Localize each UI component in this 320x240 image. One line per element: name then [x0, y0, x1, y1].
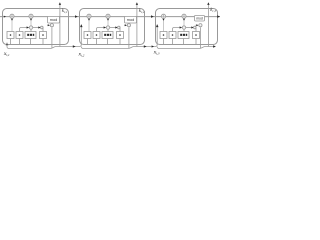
wire: stub below box 1.3 [30, 39, 32, 45]
xor node C3 above reg3 [182, 26, 185, 29]
svg-text:mod: mod [196, 17, 203, 21]
wire: stub below box 2.2 [96, 39, 98, 45]
output arrow up, cell 2 [136, 2, 138, 5]
xor node E2 [127, 24, 130, 27]
wire: output vertical cell 2 [136, 5, 138, 47]
register box 3.1 [160, 32, 167, 39]
xor node B2 on wire [106, 14, 110, 18]
wire: output vertical cell 3 [207, 5, 209, 47]
wire into xor E3 [196, 24, 198, 26]
arrow down from A1 [11, 19, 13, 21]
direction arrow near cell 3 elbow [152, 45, 154, 47]
wire: bottom rail under cell 2 to cell 3 [81, 25, 157, 49]
wire: bottom rail under cell 1 to cell 2 [7, 25, 81, 49]
register box 1.2 [16, 32, 23, 39]
wire: stub below box 2.4 [119, 39, 121, 45]
wire: chain C2 to reg4 [110, 27, 117, 29]
register box 1.1 [7, 32, 14, 39]
wire: stub below box 1.1 [10, 39, 12, 45]
direction arrow on rail 1->2 [73, 45, 76, 48]
wire: drop from E3 to bottom rail [199, 27, 201, 48]
arrow down from A2 [88, 19, 90, 21]
register box 2.4 [117, 32, 124, 39]
wire: output vertical cell 1 [59, 5, 61, 47]
wire into xor E2 [124, 24, 126, 26]
register box 2.2 [93, 32, 100, 39]
arrow down from B3 [183, 19, 185, 21]
arrow on wire entering cell 1 [4, 16, 6, 18]
register box 3.2 [169, 32, 176, 39]
xor node B1 on wire [29, 14, 33, 18]
wire: drop from E1 to bottom rail [51, 27, 53, 48]
wire: chain C3 to reg4 [186, 27, 193, 29]
direction arrow on rail 2->3 [144, 45, 147, 48]
svg-text:kc,1: kc,1 [62, 9, 68, 15]
xor node E1 [50, 24, 53, 27]
svg-text:xt,1: xt,1 [3, 51, 10, 57]
arrow into C3 [180, 26, 182, 28]
function box (mod) cell 2 [125, 16, 137, 23]
register box 3.3 [178, 32, 189, 39]
direction arrow at rail end [213, 45, 216, 48]
function box (mod) cell 3 [195, 15, 205, 21]
wire: stub below box 3.1 [163, 39, 165, 45]
wire: stub below box 2.3 [107, 39, 109, 45]
wire into xor E1 [47, 24, 49, 26]
xor node A3 on wire [161, 14, 165, 18]
cell 3 rounded border [156, 9, 218, 45]
wire: drop from E2 to bottom rail [128, 27, 130, 48]
wire: stub below box 1.4 [42, 39, 44, 45]
wire: stub below box 2.1 [87, 39, 89, 45]
register box 3.4 [193, 32, 200, 39]
register box 2.1 [84, 32, 91, 39]
wire: main horizontal data line y=16.6 across image [0, 16, 220, 18]
xor node B3 on wire [182, 14, 186, 18]
arrow on wire entering cell 3 [151, 15, 154, 18]
xor node A1 on wire [10, 14, 14, 18]
wire: chain C1 to reg4 [33, 27, 40, 29]
wire: bottom rail under cell 3 to right edge [157, 47, 213, 49]
svg-text:xt,3: xt,3 [153, 49, 160, 56]
xor node C2 above reg3 [106, 26, 109, 29]
arrow down from A3 [163, 19, 165, 21]
output arrow up, cell 1 [59, 2, 61, 5]
wire: stub below box 1.2 [19, 39, 21, 45]
wire: mid chain from reg2 to xor C2 to reg4, cell 2 [97, 28, 106, 32]
register box 2.3 [102, 32, 113, 39]
svg-text:mod: mod [127, 18, 134, 22]
arrow into C2 [104, 26, 106, 28]
arrow into C1 [27, 26, 29, 28]
cell 1 rounded border [3, 9, 69, 45]
arrow down from B2 [107, 19, 109, 21]
svg-text:xt,2: xt,2 [78, 51, 85, 57]
output arrow up, cell 3 [207, 2, 209, 5]
feedback arrow into cell 1 [6, 42, 9, 45]
wire: stub below box 3.3 [183, 39, 185, 45]
cell 2 rounded border [80, 9, 145, 45]
node D1 [41, 26, 44, 29]
svg-text:kc,3: kc,3 [210, 8, 216, 14]
node D3 [194, 26, 197, 29]
function box (mod) cell 1 [48, 16, 60, 23]
arrow down from B1 [30, 19, 32, 21]
xor node E3 [199, 24, 202, 27]
arrow on wire exiting right edge [217, 15, 220, 18]
xor node A2 on wire [87, 14, 91, 18]
wire: stub below box 3.4 [195, 39, 197, 45]
xor node C1 above reg3 [29, 26, 32, 29]
wire: stub below box 3.2 [172, 39, 174, 45]
register box 1.3 [25, 32, 36, 39]
register box 1.4 [40, 32, 47, 39]
arrow on wire entering cell 2 [75, 15, 78, 18]
feedback arrow inside cell 2 [80, 24, 83, 27]
feedback arrow inside cell 3 [156, 24, 159, 27]
svg-text:mod: mod [50, 18, 57, 22]
wire: mid chain from reg2 to xor C1 to reg4, cell 1 [20, 28, 29, 32]
wire: mid chain from reg2 to xor C3 to reg4, cell 3 [173, 28, 182, 32]
node D2 [118, 26, 121, 29]
